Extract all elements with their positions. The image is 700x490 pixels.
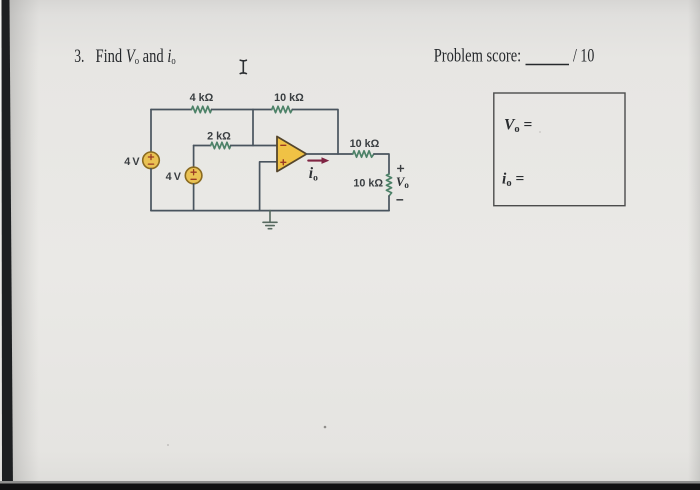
svg-text:Problem score:: Problem score: <box>434 45 522 66</box>
current io arrow <box>308 157 329 164</box>
op-amp plus input mark <box>281 160 286 165</box>
source V2 4V circle <box>185 167 202 184</box>
source V2 plus mark <box>191 170 196 175</box>
white sliver top-left <box>0 0 3 150</box>
answer box <box>494 93 625 206</box>
wire: 2k branch left segment <box>194 145 211 147</box>
source V2 minus mark <box>191 178 196 180</box>
wire: left rail down to source V1 <box>150 110 152 153</box>
resistor R 10k feedback zigzag <box>272 106 293 112</box>
label minus polarity Vo <box>396 199 403 201</box>
svg-text:10 kΩ: 10 kΩ <box>353 178 383 190</box>
wire: V2 branch vertical lower <box>193 184 195 211</box>
wire: top rail mid segment (4k to 10k) <box>212 109 272 111</box>
resistor R 10k load vertical zigzag <box>386 174 391 196</box>
svg-text:2 kΩ: 2 kΩ <box>207 131 231 143</box>
resistor R 2k zigzag <box>211 142 231 148</box>
source V1 4V circle <box>143 152 160 169</box>
left shadow beside binder edge <box>9 0 39 490</box>
svg-text:10 kΩ: 10 kΩ <box>350 138 380 150</box>
wire: right rail lower to bottom rail <box>388 196 390 211</box>
svg-text:4 V: 4 V <box>124 156 140 168</box>
wire: V2 branch vertical upper <box>193 146 195 168</box>
resistor R 4k zigzag <box>192 106 212 112</box>
title: 3. Find Vo and io <box>74 47 176 67</box>
soft edge above bottom band <box>0 481 700 484</box>
svg-text:3.: 3. <box>74 47 84 67</box>
wire: non-inverting input to ground rail <box>260 162 277 211</box>
svg-text:/ 10: / 10 <box>573 45 594 66</box>
resistor R 10k output zigzag <box>353 151 374 157</box>
problem score heading <box>434 45 595 66</box>
ground symbol <box>263 211 277 229</box>
text cursor I-beam <box>240 60 246 73</box>
faint specks on paper <box>324 426 327 429</box>
dark band bottom <box>0 484 700 490</box>
score blank line <box>526 64 570 66</box>
wire: top rail right segment + feedback drop to output <box>292 110 338 155</box>
op-amp U1 triangle <box>277 137 307 172</box>
wire: 2k branch to op-amp inverting input <box>231 145 277 147</box>
svg-text:4 V: 4 V <box>166 171 182 183</box>
op-amp minus input mark <box>281 144 286 146</box>
svg-text:4 kΩ: 4 kΩ <box>190 92 214 104</box>
source V1 plus mark <box>148 154 153 159</box>
right edge shadow <box>688 0 700 490</box>
wire: output to right rail corner <box>374 154 389 174</box>
wire: op-amp output segment <box>307 153 353 155</box>
wire: top rail left segment (to 4k resistor) <box>151 109 192 111</box>
circuit text labels <box>124 92 383 190</box>
wire: left rail below V1 to bottom rail <box>150 169 152 211</box>
source V1 minus mark <box>148 163 153 165</box>
svg-text:io =: io = <box>502 171 524 190</box>
label plus polarity Vo <box>397 165 404 172</box>
dark binder strip left <box>2 0 14 490</box>
wire: junction drop from top rail to inverting node <box>252 110 254 146</box>
svg-text:10 kΩ: 10 kΩ <box>274 92 304 104</box>
wire: bottom rail <box>151 210 389 212</box>
